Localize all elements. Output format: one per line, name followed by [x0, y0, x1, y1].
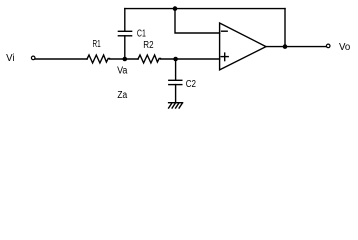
svg-text:C2: C2	[186, 79, 197, 90]
wire Va to C1	[124, 36, 126, 59]
svg-text:Vi: Vi	[6, 53, 14, 64]
wire node to C2	[175, 59, 177, 80]
svg-text:Va: Va	[117, 65, 128, 76]
wire Vi to R1	[35, 58, 87, 60]
op-amp U1	[220, 23, 266, 70]
terminal Vi	[31, 56, 35, 60]
svg-text:R2: R2	[143, 40, 154, 51]
wire R1 to R2	[110, 58, 139, 60]
capacitor C2	[169, 80, 182, 84]
wire top feedback	[125, 8, 285, 10]
svg-text:Vo: Vo	[339, 42, 351, 53]
resistor R2	[138, 55, 161, 63]
resistor R1	[87, 55, 110, 63]
node C2 junction dot	[173, 57, 178, 62]
wire feedback to inverting input	[175, 9, 220, 33]
svg-text:R1: R1	[93, 39, 101, 50]
capacitor C1	[118, 31, 131, 36]
wire output to top feedback	[284, 9, 286, 47]
wire R2 to op-amp plus input	[161, 58, 220, 60]
wire op-amp output to Vo	[266, 46, 326, 48]
svg-text:C1: C1	[137, 28, 146, 39]
wire C1 to top feedback	[124, 9, 126, 32]
svg-text:Za: Za	[117, 90, 127, 101]
wire C2 to ground	[175, 85, 177, 103]
junction dot feedback to inverting input	[173, 6, 178, 11]
node Va junction dot	[123, 57, 128, 62]
node output junction dot	[283, 44, 288, 49]
terminal Vo	[326, 44, 330, 48]
ground	[169, 103, 183, 108]
